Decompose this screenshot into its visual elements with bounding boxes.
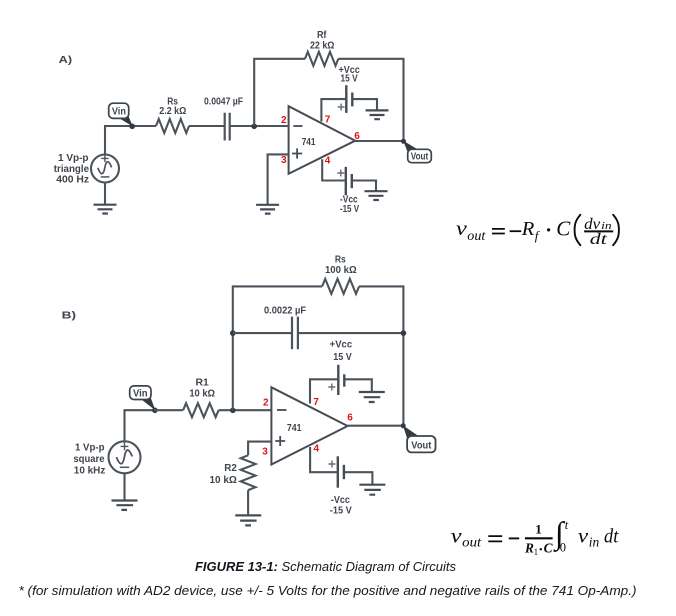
resistor Rs 2.2k — [156, 119, 189, 133]
svg-text:7: 7 — [325, 114, 331, 125]
wire R2 to ground — [247, 490, 249, 515]
op-amp U2 plus input mark — [275, 436, 285, 446]
resistor R2 10k vertical — [241, 455, 256, 490]
wire output pin6 — [355, 140, 403, 142]
svg-text:6: 6 — [347, 413, 353, 424]
wire pin3 to ground — [268, 154, 289, 204]
op-amp U1 minus input mark — [293, 125, 302, 127]
source V1: 1 Vp-p triangle 400 Hz — [91, 155, 119, 183]
svg-text:in: in — [589, 534, 600, 549]
Vin label box — [109, 103, 129, 118]
source V2: 1 Vp-p square 10 kHz — [109, 441, 141, 473]
node feedback junction B bottom — [230, 408, 236, 414]
wire battery to ground +Vcc B — [345, 379, 371, 392]
node capacitor left junction B — [230, 330, 236, 336]
svg-text:1 Vp-p: 1 Vp-p — [75, 443, 105, 454]
svg-text:f: f — [535, 228, 541, 243]
battery -Vcc A short plate — [351, 174, 353, 188]
svg-text:v: v — [451, 526, 463, 548]
Vout label box B — [407, 436, 435, 452]
ground at +Vcc B — [359, 392, 385, 402]
svg-text:Vout: Vout — [411, 151, 429, 162]
svg-text:1 Vp-p: 1 Vp-p — [58, 153, 89, 164]
battery -Vcc A long plate — [345, 167, 347, 195]
wire resistor to capacitor — [189, 125, 224, 127]
svg-text:triangle: triangle — [54, 164, 90, 175]
svg-text:square: square — [73, 454, 105, 465]
svg-text:t: t — [565, 518, 569, 532]
wire pin4 to -Vcc battery — [322, 159, 345, 180]
wire feedback up-left — [254, 59, 305, 126]
Vout callout pointer B — [403, 425, 419, 438]
wire pin7 to +Vcc battery B — [310, 379, 337, 403]
svg-text:v: v — [456, 218, 468, 240]
wire capacitor branch B — [233, 332, 404, 334]
svg-text:3: 3 — [262, 447, 268, 458]
svg-text:7: 7 — [313, 397, 319, 408]
battery -Vcc B short plate — [343, 465, 345, 479]
svg-text:1: 1 — [534, 547, 539, 557]
svg-text:out: out — [467, 228, 486, 243]
svg-text:Rs: Rs — [335, 254, 346, 265]
svg-text:10 kΩ: 10 kΩ — [210, 475, 237, 486]
svg-text:v: v — [578, 526, 589, 548]
battery -Vcc B plus mark — [328, 461, 335, 468]
wire feedback left column B — [233, 286, 322, 410]
ground below source V2 — [112, 501, 138, 510]
ground at -Vcc B — [359, 485, 385, 495]
Vout callout pointer A — [403, 141, 418, 152]
wire source V2 top — [125, 410, 157, 441]
svg-text:15 V: 15 V — [333, 352, 352, 363]
svg-text:-15 V: -15 V — [340, 204, 359, 215]
capacitor C2 0.0022uF plates — [292, 317, 298, 350]
svg-text:Vout: Vout — [411, 440, 432, 451]
wire output pin6 B — [348, 425, 404, 427]
resistor Rf 22k — [305, 52, 338, 66]
svg-text:C: C — [544, 541, 553, 556]
wire source top to input line — [104, 126, 106, 155]
wire pin7 to +Vcc battery — [321, 99, 345, 121]
ground below R2 — [235, 515, 261, 525]
node capacitor right junction B — [401, 330, 407, 336]
source V1 sine squiggle — [97, 161, 112, 174]
svg-text:1: 1 — [535, 522, 542, 537]
op-amp U2 741 triangle — [271, 387, 347, 464]
source V2 plus mark — [121, 443, 129, 451]
svg-text:R2: R2 — [224, 463, 237, 474]
svg-text:B): B) — [62, 311, 76, 322]
battery -Vcc B long plate — [337, 456, 339, 487]
svg-text:0.0022 µF: 0.0022 µF — [264, 305, 306, 316]
svg-text:15 V: 15 V — [341, 73, 358, 84]
svg-text:0: 0 — [560, 540, 566, 554]
svg-text:2: 2 — [281, 115, 287, 126]
Vin label callout pointer — [119, 114, 133, 126]
svg-text:2: 2 — [263, 398, 269, 409]
Vin label box B — [130, 386, 151, 400]
node output A junction — [401, 139, 406, 144]
ground at pin3 — [256, 205, 279, 214]
svg-text:in: in — [601, 220, 612, 232]
svg-text:741: 741 — [287, 423, 302, 434]
battery +Vcc A long plate — [345, 85, 347, 113]
svg-text:-15 V: -15 V — [330, 505, 352, 516]
node Vin (junction dot) — [129, 124, 135, 130]
source V1 minus mark — [101, 176, 110, 178]
svg-text:22 kΩ: 22 kΩ — [310, 40, 335, 51]
svg-text:0.0047 µF: 0.0047 µF — [204, 97, 243, 108]
node Vin B junction — [152, 408, 158, 414]
wire source bottom to ground — [104, 183, 106, 205]
svg-text:-Vcc: -Vcc — [331, 495, 350, 506]
svg-text:3: 3 — [281, 155, 287, 166]
svg-text:400 Hz: 400 Hz — [56, 175, 89, 186]
op-amp U1 plus input mark — [292, 148, 302, 158]
wire pin4 to -Vcc battery B — [310, 447, 337, 472]
battery +Vcc B short plate — [343, 374, 345, 386]
svg-text:10 kHz: 10 kHz — [74, 465, 106, 476]
source V1 plus mark — [101, 155, 108, 162]
svg-text:R: R — [521, 218, 535, 240]
battery +Vcc B plus mark — [328, 384, 335, 391]
svg-text:* (for simulation with AD2 dev: * (for simulation with AD2 device, use +… — [19, 583, 637, 598]
svg-text:out: out — [462, 534, 482, 549]
svg-text:Vin: Vin — [112, 107, 126, 118]
Vout label box A — [408, 149, 432, 162]
wire source V2 bottom to ground — [123, 473, 125, 500]
wire battery to ground -Vcc A — [353, 181, 376, 192]
ground below source V1 — [94, 205, 117, 214]
svg-text:2.2 kΩ: 2.2 kΩ — [159, 106, 186, 117]
source V2 minus mark — [120, 466, 129, 468]
svg-text:741: 741 — [302, 137, 316, 148]
battery -Vcc A plus mark — [337, 170, 344, 177]
svg-text:FIGURE 13-1: Schematic Diagram: FIGURE 13-1: Schematic Diagram of Circui… — [195, 559, 456, 574]
Vin callout pointer B — [141, 395, 156, 410]
node output B junction — [401, 423, 406, 428]
equation A: vout = -Rf . C (dvin/dt) — [456, 215, 619, 248]
wire Rf to output column — [338, 59, 403, 141]
svg-text:100 kΩ: 100 kΩ — [325, 265, 357, 276]
wire pin3 to R2 — [248, 442, 271, 456]
wire battery to ground A top — [353, 99, 377, 110]
battery +Vcc A short plate — [351, 93, 353, 107]
battery +Vcc A plus mark — [338, 104, 345, 111]
source V2 sine squiggle — [116, 450, 133, 465]
svg-text:4: 4 — [314, 443, 320, 454]
svg-text:Vin: Vin — [133, 388, 148, 399]
resistor R1 10k — [183, 403, 219, 417]
ground at +Vcc A — [366, 110, 389, 119]
capacitor C1 0.0047uF plates — [225, 113, 230, 141]
svg-text:R1: R1 — [196, 378, 210, 389]
svg-text:dt: dt — [590, 231, 608, 248]
resistor Rs 100k B — [322, 279, 359, 294]
wire battery to ground -Vcc B — [345, 472, 372, 484]
svg-text:A): A) — [59, 55, 72, 66]
wire Rs to right column B — [359, 286, 403, 425]
svg-text:10 kΩ: 10 kΩ — [189, 389, 215, 400]
equation B: vout = -(1/R1C) integral 0..t vin dt — [451, 515, 620, 557]
wire Vin to R1 — [154, 409, 183, 411]
svg-text:R: R — [524, 541, 534, 556]
wire R1 to op-amp pin2 B — [219, 409, 272, 411]
wire capacitor to op-amp pin2 — [230, 125, 289, 127]
battery +Vcc B long plate — [337, 365, 339, 395]
op-amp U1 741 triangle — [289, 106, 356, 174]
node feedback junction A — [251, 124, 257, 130]
svg-text:dt: dt — [604, 526, 619, 548]
ground at -Vcc A — [365, 191, 388, 200]
svg-text:C: C — [556, 216, 571, 240]
svg-text:4: 4 — [325, 156, 331, 167]
svg-text:+Vcc: +Vcc — [330, 339, 353, 350]
wire input line left segment — [104, 125, 156, 127]
op-amp U2 minus input mark — [277, 409, 287, 411]
